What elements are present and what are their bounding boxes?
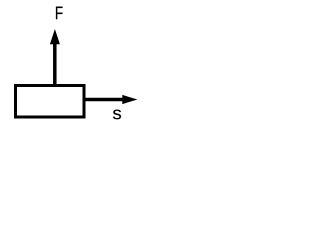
- wire: force arrow shaft (vertical): [53, 44, 57, 86]
- label s: [113, 110, 121, 120]
- wire: displacement arrow shaft (horizontal): [85, 98, 124, 101]
- arrowhead of displacement arrow s: [122, 95, 137, 104]
- arrowhead of force arrow F: [50, 29, 60, 44]
- block (rectangle body): [16, 86, 85, 118]
- label F: [56, 7, 63, 20]
